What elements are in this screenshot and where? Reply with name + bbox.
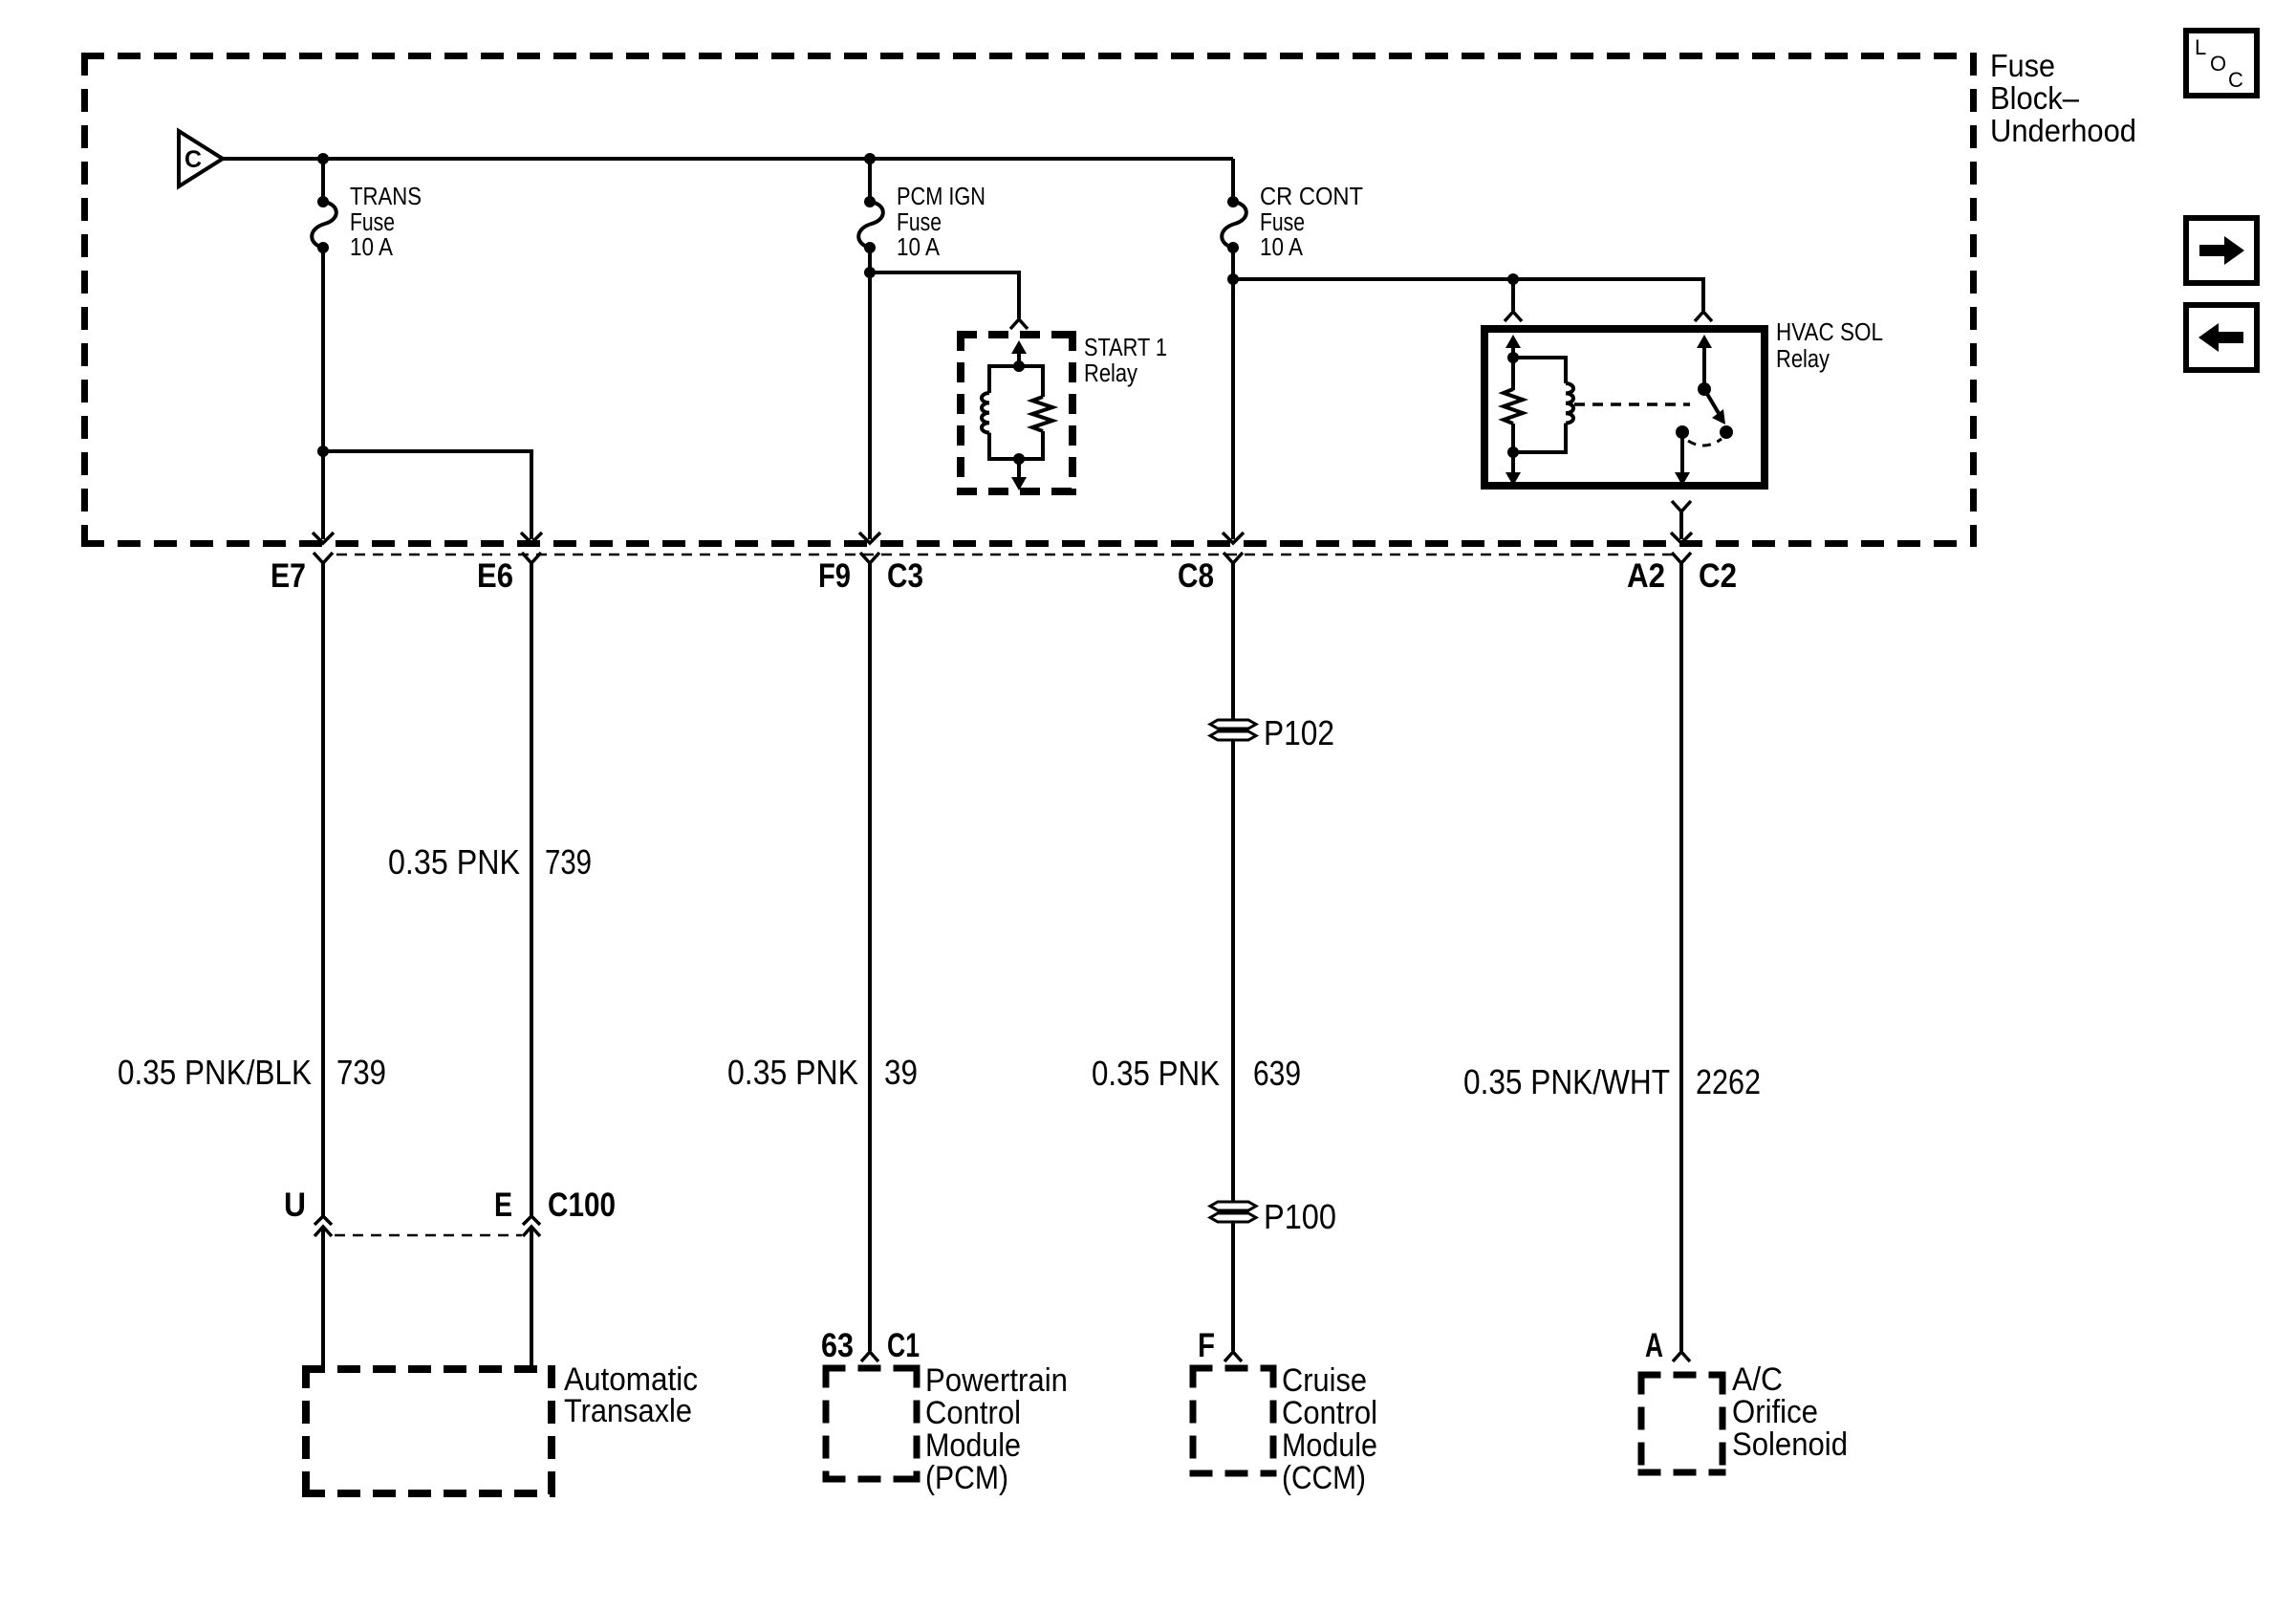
fuse CR CONT 10A [1222, 159, 1363, 261]
coil (left) [982, 393, 989, 433]
svg-text:A/C: A/C [1732, 1361, 1783, 1398]
LOC icon box [2186, 31, 2257, 96]
node junction PCM IGN [864, 153, 876, 164]
svg-text:F: F [1198, 1326, 1215, 1364]
relay START 1 dashed box [957, 331, 1076, 338]
fuse block underhood dashed boundary box [81, 53, 1977, 547]
svg-text:10 A: 10 A [897, 234, 940, 261]
svg-text:10 A: 10 A [1260, 234, 1303, 261]
svg-text:PCM IGN: PCM IGN [897, 184, 986, 210]
connector chevron C8 [1224, 553, 1243, 563]
wire E to transaxle [530, 1227, 533, 1369]
svg-text:L: L [2195, 35, 2206, 59]
relay HVAC SOL box [1484, 329, 1765, 486]
svg-text:0.35 PNK/WHT: 0.35 PNK/WHT [1463, 1062, 1670, 1101]
exit arrow A2 [1671, 533, 1692, 543]
svg-text:Fuse: Fuse [897, 209, 942, 236]
connector C100 chevrons U [314, 1216, 332, 1225]
right arrow icon box [2186, 218, 2257, 283]
svg-text:Powertrain: Powertrain [925, 1362, 1068, 1399]
svg-text:O: O [2210, 52, 2226, 76]
node junction HVAC coil [1507, 273, 1519, 285]
svg-text:Control: Control [925, 1395, 1021, 1431]
svg-text:0.35 PNK: 0.35 PNK [1092, 1054, 1220, 1093]
wire HVAC coil drop [1511, 279, 1515, 311]
svg-text:Control: Control [1282, 1395, 1377, 1431]
splice P102 [1210, 720, 1256, 740]
node junction E6 branch [317, 446, 329, 457]
CCM dashed box [1190, 1365, 1277, 1372]
svg-text:739: 739 [336, 1053, 386, 1092]
svg-text:TRANS: TRANS [350, 184, 422, 210]
svg-text:Solenoid: Solenoid [1732, 1426, 1848, 1463]
connector chevron E7 [314, 553, 333, 563]
svg-text:Relay: Relay [1776, 346, 1830, 373]
svg-text:Underhood: Underhood [1990, 114, 2136, 149]
wire branch to E6 [323, 451, 531, 539]
connector C triangle [179, 131, 223, 186]
svg-text:Transaxle: Transaxle [564, 1393, 692, 1429]
svg-text:F9: F9 [818, 556, 851, 595]
svg-text:C: C [2228, 68, 2243, 92]
connector chevron E6 [522, 553, 541, 563]
wire branch to HVAC relay [1233, 279, 1703, 311]
resistor (right) [1019, 366, 1043, 397]
svg-text:(CCM): (CCM) [1282, 1460, 1366, 1496]
svg-text:Fuse: Fuse [350, 209, 395, 236]
connector chevron into PCM [861, 1352, 878, 1361]
connector chevron below HVAC relay [1672, 501, 1691, 512]
svg-text:Module: Module [1282, 1427, 1377, 1464]
fuse PCM IGN 10A [858, 159, 986, 261]
svg-text:Module: Module [925, 1427, 1021, 1464]
svg-text:63: 63 [821, 1326, 854, 1364]
svg-text:C1: C1 [887, 1326, 920, 1364]
wire TRANS fuse down to E7 [321, 248, 325, 539]
wire C8 harness upper [1231, 563, 1235, 720]
svg-text:C8: C8 [1178, 556, 1214, 595]
wire CR CONT down to C8 [1231, 248, 1235, 539]
connector chevron into CCM [1224, 1352, 1242, 1361]
svg-text:39: 39 [884, 1053, 918, 1092]
svg-text:HVAC SOL: HVAC SOL [1776, 319, 1883, 346]
exit arrow E6 [521, 533, 542, 543]
node junction TRANS [317, 153, 329, 164]
svg-text:A: A [1645, 1326, 1663, 1364]
svg-text:Fuse: Fuse [1990, 49, 2055, 84]
svg-text:Block–: Block– [1990, 81, 2079, 117]
START 1 relay internals [982, 340, 1052, 490]
svg-text:P102: P102 [1264, 713, 1334, 752]
wire U to transaxle [321, 1227, 325, 1369]
connector chevron into START relay [1010, 319, 1028, 329]
fuse block label [1990, 49, 2136, 149]
A/C orifice solenoid dashed box [1638, 1372, 1726, 1379]
svg-text:0.35 PNK: 0.35 PNK [388, 842, 520, 882]
dashed coil-switch link [1574, 403, 1690, 406]
resistor (left vertical) [1511, 358, 1515, 390]
left arrow icon box [2186, 305, 2257, 370]
PCM dashed box [823, 1365, 921, 1372]
svg-text:C3: C3 [887, 556, 923, 595]
Automatic Transaxle dashed box [302, 1365, 555, 1373]
svg-text:START 1: START 1 [1084, 335, 1167, 361]
svg-text:C2: C2 [1699, 556, 1737, 595]
svg-text:Fuse: Fuse [1260, 209, 1305, 236]
coil (right side bumps) [1566, 383, 1573, 424]
svg-text:A2: A2 [1627, 556, 1665, 595]
connector chevron F9/C3 [860, 553, 879, 563]
svg-text:U: U [284, 1186, 306, 1224]
svg-text:10 A: 10 A [350, 234, 393, 261]
connector strip dashed line [336, 554, 1673, 556]
exit arrow F9 [859, 533, 880, 543]
node junction HVAC branch [1227, 273, 1239, 285]
svg-text:C: C [184, 146, 202, 173]
exit arrow C8 [1223, 533, 1244, 543]
splice P100 [1210, 1202, 1256, 1222]
wire E7 harness [321, 563, 325, 1216]
connector chevron A2/C2 [1672, 553, 1691, 563]
wire branch to START 1 relay [870, 272, 1019, 318]
svg-text:739: 739 [545, 842, 592, 882]
connector C100 dashed link [335, 1234, 522, 1237]
svg-text:Cruise: Cruise [1282, 1362, 1367, 1399]
wire PCM IGN down to F9 [868, 248, 872, 539]
svg-text:0.35 PNK: 0.35 PNK [727, 1053, 858, 1092]
wire F9/C3 harness [868, 563, 872, 1351]
wire main bus [223, 157, 1233, 161]
wire C8 harness lower [1231, 740, 1235, 1351]
svg-text:E6: E6 [477, 556, 513, 595]
svg-text:E: E [494, 1186, 512, 1224]
exit arrow E7 [313, 533, 334, 543]
svg-text:(PCM): (PCM) [925, 1460, 1008, 1496]
connector chevron into A/C solenoid [1673, 1352, 1690, 1361]
wire E6 harness [530, 563, 533, 1216]
HVAC SOL relay coil side internals [1504, 335, 1573, 486]
connector chevron into HVAC relay (coil) [1505, 312, 1522, 321]
node junction START1 branch [864, 267, 876, 278]
svg-text:C100: C100 [548, 1186, 616, 1224]
svg-text:639: 639 [1253, 1054, 1301, 1093]
svg-text:0.35 PNK/BLK: 0.35 PNK/BLK [118, 1053, 312, 1092]
fuse TRANS 10A [312, 159, 422, 261]
svg-text:P100: P100 [1264, 1197, 1336, 1236]
svg-text:Relay: Relay [1084, 360, 1137, 387]
svg-text:CR CONT: CR CONT [1260, 184, 1363, 210]
svg-text:E7: E7 [271, 556, 306, 595]
wire HVAC output to A2 [1679, 512, 1683, 539]
connector chevron into HVAC relay (switch) [1695, 312, 1712, 321]
HVAC SOL relay switch internals [1574, 335, 1733, 486]
connector C100 chevrons E [523, 1216, 540, 1225]
wire A2/C2 harness [1679, 563, 1683, 1351]
svg-text:Orifice: Orifice [1732, 1394, 1818, 1430]
svg-text:2262: 2262 [1696, 1062, 1761, 1101]
